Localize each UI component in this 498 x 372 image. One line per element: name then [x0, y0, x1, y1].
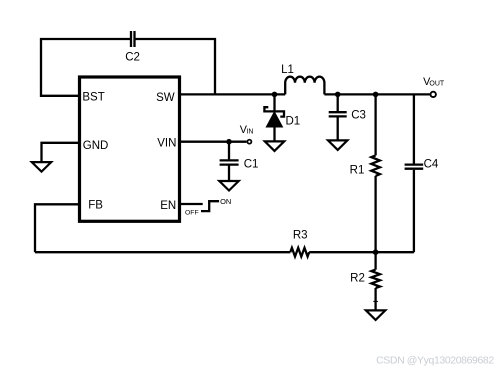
svg-text:GND: GND: [83, 140, 109, 152]
pin end tick on R2 lead: [373, 300, 378, 302]
ground below R2: [366, 310, 385, 320]
wire C3 to ground: [337, 117, 339, 140]
wire bottom net to R3: [35, 251, 290, 253]
svg-text:VIN: VIN: [157, 137, 176, 149]
node SW/D1 junction: [272, 92, 278, 98]
ground below D1: [265, 141, 284, 151]
ground below GND pin: [32, 162, 51, 172]
node R1 junction top: [373, 92, 379, 98]
capacitor C2: [131, 31, 135, 47]
diode D1 triangle: [266, 112, 282, 127]
svg-text:R3: R3: [293, 230, 308, 242]
wire FB pin to bottom-left corner: [35, 204, 80, 252]
wire VOUT net to C3: [337, 94, 339, 111]
wire VIN net down to C1: [228, 142, 230, 160]
wire VIN pin to input terminal: [180, 141, 247, 143]
svg-text:C4: C4: [424, 159, 439, 171]
wire L1 to VOUT: [324, 93, 430, 95]
wire junction to R2: [374, 252, 376, 269]
svg-text:OFF: OFF: [185, 210, 199, 217]
node feedback junction dot: [373, 249, 379, 255]
svg-text:C2: C2: [125, 51, 140, 63]
svg-text:SW: SW: [156, 92, 175, 104]
ground below C3: [328, 140, 347, 150]
wire C4 bottom lead to feedback net: [413, 170, 415, 253]
svg-text:IN: IN: [246, 129, 253, 136]
svg-text:CSDN @Yyq13020869682: CSDN @Yyq13020869682: [376, 355, 494, 367]
wire C1 to ground: [228, 166, 230, 182]
diode D1 (schottky) lead from SW: [273, 94, 275, 110]
ground below C1: [219, 181, 238, 191]
switch lever EN on/off: [201, 201, 219, 211]
svg-text:R1: R1: [350, 165, 365, 177]
capacitor C1: [220, 160, 239, 164]
resistor R2: [371, 270, 380, 288]
resistor R3: [290, 248, 309, 257]
wire VOUT net down to R1: [374, 94, 376, 155]
terminal VOUT circle: [431, 92, 436, 97]
inductor L1: [285, 77, 324, 95]
diode D1 schottky cathode bar: [264, 107, 284, 116]
terminal VIN circle: [247, 140, 251, 144]
capacitor C4: [405, 165, 424, 169]
wire SW pin to inductor L1: [180, 93, 286, 95]
svg-text:BST: BST: [82, 91, 104, 103]
capacitor C4 top lead: [413, 94, 415, 163]
svg-text:EN: EN: [160, 200, 176, 212]
op-amp U1 (regulator IC body): [80, 77, 180, 221]
capacitor C3: [329, 112, 347, 116]
svg-text:R2: R2: [350, 273, 365, 285]
wire R1 bottom to feedback node: [374, 176, 376, 252]
wire R2 bottom to ground: [374, 288, 376, 310]
svg-text:OUT: OUT: [429, 81, 445, 88]
wire R3 to feedback junction and C4 branch: [309, 251, 414, 253]
svg-text:D1: D1: [286, 116, 301, 128]
node C3 junction: [335, 92, 341, 98]
resistor R1: [371, 155, 380, 176]
svg-text:FB: FB: [88, 200, 103, 212]
wire BST pin to top-left corner and up to C2: [41, 39, 130, 96]
svg-text:ON: ON: [220, 197, 231, 206]
wire GND pin to ground: [42, 143, 80, 162]
svg-text:C3: C3: [351, 110, 366, 122]
svg-text:C1: C1: [244, 159, 259, 171]
wire C2 right to corner and down to SW net: [136, 39, 216, 94]
wire EN pin stub: [180, 203, 203, 205]
wire D1 anode to ground: [273, 127, 275, 141]
node C1 junction: [226, 139, 232, 145]
svg-text:L1: L1: [281, 64, 294, 76]
